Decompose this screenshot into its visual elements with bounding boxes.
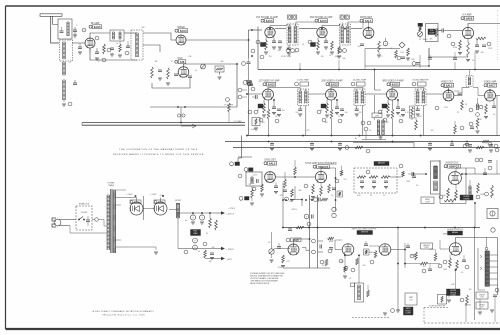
res RP1 — [209, 213, 212, 228]
wire tuner mid — [143, 45, 160, 52]
flyback top circle — [485, 247, 488, 251]
svg-text:6AU6: 6AU6 — [180, 29, 187, 33]
svg-text:CONT: CONT — [424, 247, 429, 249]
part blackbox stage2 — [311, 43, 316, 47]
ground C11 — [272, 47, 276, 49]
res RD2 — [323, 237, 334, 241]
svg-text:+ 270 V.: + 270 V. — [228, 208, 236, 210]
coil L5 — [63, 80, 66, 100]
wire horiz misc — [455, 270, 457, 289]
wire choke out — [178, 213, 216, 218]
wire rowA can out — [296, 22, 363, 29]
res R13 — [317, 38, 320, 50]
bus cluster 490 — [482, 140, 498, 152]
sync det label — [264, 160, 277, 166]
sync black label — [374, 162, 389, 166]
res RD10 — [434, 249, 437, 261]
circled d4 — [443, 260, 469, 269]
can1 sub label — [281, 49, 294, 58]
wire horiz grid — [440, 240, 449, 249]
tube V6 AF amp — [462, 27, 473, 38]
svg-text:6AX4GT: 6AX4GT — [378, 162, 386, 165]
svg-text:TRANS: TRANS — [108, 184, 115, 187]
cap CD1 — [277, 243, 281, 248]
svg-text:+135 V.: +135 V. — [252, 175, 258, 177]
part blackbox 2ND VIDEO I-F AMP — [321, 104, 326, 108]
wire rowD top1 — [282, 200, 284, 228]
horiz lin box — [476, 302, 488, 309]
mid col res — [226, 98, 231, 123]
vertical wire to heater bus — [236, 64, 238, 107]
cap C19 — [475, 40, 479, 47]
component value labels — [69, 25, 498, 294]
integ circled — [366, 170, 370, 174]
balun box — [58, 19, 72, 39]
mixer tube V1 — [85, 38, 95, 48]
wire out mid — [194, 244, 196, 246]
res R8 — [167, 68, 170, 79]
label horiz osc — [444, 163, 460, 169]
cap C15 — [360, 44, 364, 46]
FM trap box — [110, 30, 124, 41]
heater bus upper — [82, 122, 245, 124]
wire rowA 2 — [299, 28, 317, 30]
circled b12 — [322, 118, 326, 122]
fold dotted line — [497, 10, 499, 60]
trap coil box — [377, 120, 384, 135]
ground C60 — [191, 222, 204, 224]
cap C3 tuner — [126, 41, 130, 48]
label canB 4.5 MC TRAP — [295, 79, 310, 87]
svg-text:.05: .05 — [331, 195, 333, 197]
circled a3 — [295, 48, 299, 52]
label af amp — [461, 14, 474, 21]
svg-text:6AL5: 6AL5 — [269, 161, 276, 165]
svg-text:SOUND TAKEOFF: SOUND TAKEOFF — [413, 79, 430, 82]
electrolytic C16 — [383, 38, 388, 46]
label 1st sound if — [256, 16, 279, 23]
circled v2 — [479, 105, 483, 109]
res R11 — [265, 38, 268, 50]
bus hang 340 — [338, 142, 342, 151]
wire tuner to 1st vif — [249, 86, 263, 94]
label video det — [441, 82, 454, 88]
wire x474 down2 — [474, 228, 476, 321]
svg-text:10: 10 — [390, 48, 392, 50]
cap C14 — [324, 38, 328, 43]
wire video amp grid — [473, 88, 485, 96]
res RC13 — [476, 183, 480, 199]
res RD13 — [456, 260, 459, 270]
ground R16 — [406, 58, 410, 60]
svg-text:68: 68 — [320, 110, 322, 112]
wire 2ND VIDEO I-F AMP drop — [331, 119, 333, 136]
ground 3RD VIDEO I-F AMP b — [396, 113, 400, 115]
svg-text:VOL: VOL — [435, 35, 438, 37]
svg-text:.005: .005 — [277, 50, 280, 52]
notes text — [250, 272, 285, 285]
svg-text:RECEIVER MAKES IT POSSIBLE TO: RECEIVER MAKES IT POSSIBLE TO BRING YOU … — [113, 153, 204, 156]
terminal circles rowB — [247, 82, 255, 91]
circled d1 — [320, 260, 348, 270]
interlock box — [76, 204, 92, 231]
svg-text:5: 5 — [382, 56, 383, 58]
cap CP1 — [210, 253, 214, 255]
ground rd1 — [377, 52, 381, 57]
circled a2 — [260, 55, 264, 59]
wire rowA plate runs — [270, 24, 340, 27]
wire rowB left terms — [238, 88, 247, 99]
label 3RD VIDEO I-F AMP — [382, 80, 404, 87]
svg-text:6SN7GT: 6SN7GT — [361, 232, 369, 234]
res R44 — [454, 121, 457, 134]
wire 3RD VIDEO I-F AMP drop — [392, 119, 394, 136]
label 2ND VIDEO I-F AMP — [321, 80, 343, 87]
dashed bottom line2 — [352, 305, 448, 323]
cap C18 — [436, 29, 448, 33]
cap under can SOUND TAKEOFF — [416, 106, 420, 111]
integrator dashed box — [354, 168, 397, 193]
power transformer primary — [107, 195, 110, 250]
circled trap1 — [361, 121, 371, 131]
circled b13 — [338, 119, 342, 123]
cap C10 — [188, 76, 192, 78]
svg-text:L-74607: L-74607 — [126, 194, 132, 196]
-18V out label — [226, 259, 233, 261]
svg-text:B+: B+ — [355, 138, 357, 140]
wire rowD spine — [335, 211, 337, 228]
svg-text:100: 100 — [209, 261, 212, 263]
cap video amp — [492, 101, 496, 108]
cap under 3RD VIDEO I-F AMP — [396, 100, 400, 109]
svg-text:4.5 MC TRAP: 4.5 MC TRAP — [297, 79, 309, 82]
circled v3 — [460, 126, 464, 130]
mixer tube V2a — [176, 35, 186, 45]
svg-text:CONT: CONT — [406, 313, 412, 315]
svg-text:+140V: +140V — [251, 129, 257, 131]
heater circles — [177, 114, 185, 117]
diamond jack — [399, 42, 405, 48]
svg-text:CONT: CONT — [451, 295, 457, 297]
res RD1 — [281, 255, 285, 268]
ground can 4.5 MC TRAP — [298, 114, 302, 116]
wire rowA 3 — [351, 28, 362, 30]
circled a4 — [308, 40, 312, 44]
junction 2ND VIDEO I-F AMP — [331, 99, 338, 136]
wire af plate to right — [468, 24, 500, 28]
res RD5 — [374, 251, 377, 259]
wire rowC right — [462, 160, 500, 174]
wire can 4.5 MC TRAP out — [305, 106, 307, 136]
cap C33 — [470, 127, 474, 129]
circled c3 — [475, 158, 492, 170]
circled a7 — [451, 42, 455, 46]
res R16 — [407, 48, 410, 56]
svg-text:.047: .047 — [422, 266, 425, 268]
antenna — [40, 14, 62, 40]
svg-text:68: 68 — [257, 110, 259, 112]
on-off switch — [78, 212, 87, 220]
cap CD2 — [329, 248, 333, 250]
horiz drive blackbox — [460, 195, 473, 200]
T4 label — [340, 15, 349, 25]
flyback transformer — [485, 251, 489, 287]
rectifier tube V11 — [154, 202, 167, 215]
circled p1 — [184, 242, 207, 254]
wire x309 drop — [309, 195, 311, 268]
svg-text:THE COOPERATION OF THE MAN: THE COOPERATION OF THE MANUFACTURER OF T… — [119, 148, 197, 151]
cap C8 — [158, 70, 162, 72]
box res RC9 — [337, 191, 343, 197]
label canB SOUND TAKEOFF — [412, 79, 429, 87]
integ cap 2 — [372, 181, 376, 189]
wire 3RD VIDEO I-F AMP plate — [392, 88, 424, 90]
bus rowB lower — [225, 141, 500, 143]
wire sec bottom — [116, 246, 156, 248]
svg-text:120: 120 — [431, 130, 434, 132]
tube horiz output — [449, 243, 461, 255]
freq control box — [421, 197, 434, 204]
cap CD3 — [364, 241, 368, 246]
wire out +270 — [216, 212, 225, 215]
res R19 — [458, 40, 462, 55]
svg-text:6J6: 6J6 — [180, 60, 185, 64]
svg-text:44.25MC TRAP: 44.25MC TRAP — [353, 79, 367, 82]
+135V label — [330, 164, 337, 166]
vert label text — [352, 228, 378, 230]
wire x497 col — [490, 96, 497, 136]
wire can 44.25MC TRAP out — [361, 106, 363, 136]
tube 1ST VIDEO I-F AMP — [263, 89, 274, 100]
electrolytic C63 — [193, 245, 198, 250]
wire mixer cathode — [89, 48, 91, 52]
wire rowC top vertical — [241, 136, 243, 159]
heater circ — [0, 0, 1, 1]
rowA bus stub6 — [474, 52, 475, 70]
res under video amp — [484, 104, 488, 119]
svg-text:+135 V.: +135 V. — [330, 164, 337, 166]
part blackbox 1ST VIDEO I-F AMP — [258, 104, 263, 108]
sync coil box — [246, 172, 262, 186]
vert hold blackbox — [404, 307, 414, 315]
svg-text:- 18 V.: - 18 V. — [226, 259, 233, 261]
IF transformer T4 — [340, 24, 351, 45]
res under 2ND VIDEO I-F AMP b — [330, 100, 333, 119]
photofact text — [93, 310, 155, 316]
svg-text:.05: .05 — [289, 201, 291, 203]
svg-text:.05: .05 — [369, 130, 371, 132]
wire y135 drops — [256, 126, 380, 136]
IF can 44.25MC TRAP — [354, 89, 365, 106]
ground under trap — [110, 54, 114, 56]
tube 2ND VIDEO I-F AMP — [326, 89, 337, 100]
res R21 — [476, 37, 486, 40]
electrolytic C60 — [190, 213, 195, 220]
res R20 — [467, 39, 470, 57]
svg-text:.005: .005 — [357, 46, 360, 48]
circled a8 — [487, 42, 491, 46]
cap CC2 — [283, 190, 287, 192]
wire rowC horiz — [238, 157, 252, 164]
cap CC7 — [479, 158, 492, 175]
wire rowA 1 — [275, 28, 286, 30]
tube V5 ratio det — [363, 28, 374, 39]
wire sync to amp — [275, 176, 315, 178]
tube 3RD VIDEO I-F AMP — [387, 89, 398, 100]
wire rowC plus rail — [285, 186, 303, 211]
res RD7 — [356, 258, 359, 265]
svg-text:6SN7GT: 6SN7GT — [449, 164, 460, 168]
wire rowD horiz 227 — [283, 227, 480, 229]
res box R9 — [215, 66, 224, 72]
ground pot2 — [270, 254, 274, 262]
+270V out label — [226, 214, 234, 216]
label ratio det — [360, 16, 373, 23]
wire rd bottom — [365, 48, 400, 50]
IF transformer T3 — [287, 24, 298, 45]
wire ratio top — [368, 22, 370, 28]
res y147 — [355, 146, 363, 149]
wire canB2 to tube3 — [365, 93, 387, 95]
power transformer core — [111, 189, 112, 253]
ground trap — [379, 135, 383, 139]
circled v1 — [435, 106, 439, 110]
svg-text:6AC7: 6AC7 — [489, 83, 496, 87]
svg-text:6AG5: 6AG5 — [94, 25, 101, 29]
svg-text:3MEG: 3MEG — [430, 249, 435, 251]
filter choke — [175, 200, 181, 218]
ground ant — [73, 35, 77, 37]
wire vert right — [405, 243, 440, 268]
wire mixer plate — [90, 33, 110, 38]
vert label — [357, 231, 373, 235]
ground R14 — [330, 52, 334, 54]
res under 1ST VIDEO I-F AMP b — [267, 100, 270, 119]
svg-text:L2: L2 — [69, 62, 71, 64]
terminal d — [383, 309, 394, 316]
res RD11 — [420, 262, 428, 265]
svg-text:VERT OSC VERT OUTPUT: VERT OSC VERT OUTPUT — [352, 228, 378, 230]
res RD6 — [344, 255, 347, 272]
cap under 1ST VIDEO I-F AMP 2 — [277, 109, 281, 111]
cluster 399 — [397, 56, 405, 60]
wire rowC drops — [270, 182, 283, 200]
ground hd — [447, 296, 451, 303]
svg-text:TO TUNER: TO TUNER — [234, 121, 243, 123]
ground 1ST VIDEO I-F AMP b — [272, 113, 276, 115]
IF can SOUND TAKEOFF — [415, 89, 426, 106]
volume pot — [418, 23, 423, 40]
svg-text:10: 10 — [195, 70, 197, 72]
cap CD0 — [288, 228, 292, 231]
cap CD4 — [406, 243, 410, 248]
tube V3 1st sound IF — [265, 27, 275, 37]
rect label 1 — [126, 194, 132, 196]
svg-text:.05: .05 — [370, 195, 372, 197]
res RC4 — [291, 189, 294, 197]
ground 3RD VIDEO I-F AMP c — [401, 115, 405, 117]
ground osc2 — [166, 83, 170, 85]
res R14 — [331, 41, 334, 50]
wire antenna to balun — [51, 40, 59, 43]
ground R11 — [264, 52, 268, 54]
svg-text:.05: .05 — [493, 114, 495, 116]
wire rowD bus — [283, 267, 330, 269]
diamond jack 2 — [475, 112, 480, 117]
osc coil right — [469, 180, 471, 199]
integ cap 1 — [360, 181, 364, 189]
width coil box — [476, 292, 488, 299]
circled a6 — [447, 34, 451, 38]
tube vert output — [379, 244, 391, 256]
label sync amp — [305, 162, 337, 169]
heater winding taps — [116, 190, 126, 240]
resistor R7 — [151, 67, 154, 78]
wire vol to af — [438, 30, 441, 32]
horiz osc right rail — [465, 168, 467, 204]
svg-text:20: 20 — [198, 251, 200, 253]
circled b02 — [259, 118, 263, 122]
ground osc1 — [158, 78, 162, 80]
svg-text:6AG5: 6AG5 — [331, 82, 338, 86]
wire y144 seg — [353, 143, 414, 148]
circled d3 — [410, 254, 442, 273]
dashed bottom line — [424, 322, 500, 324]
circled v4 — [469, 108, 473, 126]
res RP2 — [215, 220, 218, 230]
cap CC1 — [274, 182, 278, 187]
wire choke — [169, 206, 178, 218]
svg-text:COIL: COIL — [480, 297, 484, 299]
ground CC1 — [274, 192, 278, 194]
rect type box 1 — [130, 200, 141, 204]
rowA bus stub3 — [364, 49, 366, 70]
cooperation text — [113, 148, 204, 156]
cap line filter — [86, 216, 90, 226]
res RC14 — [485, 185, 494, 198]
wire vt drop — [358, 255, 360, 283]
ground P — [154, 247, 158, 254]
+270V label — [228, 208, 236, 210]
wire osc top — [184, 64, 238, 67]
res R2 tuner — [118, 41, 122, 57]
ground 1ST VIDEO I-F AMP a — [262, 115, 266, 117]
tube V2 label — [175, 58, 186, 64]
cap C5 — [95, 48, 99, 54]
cap under can 4.5 MC TRAP — [298, 106, 302, 111]
svg-text:2: 2 — [77, 25, 78, 27]
svg-text:+ 135 V.: + 135 V. — [226, 249, 234, 251]
wire horiz osc out — [456, 168, 475, 174]
cap C9 — [174, 74, 178, 76]
wire 1ST VIDEO I-F AMP plate — [268, 88, 300, 90]
wire to audio grid — [274, 248, 290, 250]
circled t2 — [95, 36, 129, 55]
svg-text:150: 150 — [282, 110, 285, 112]
can2 sub label — [335, 49, 346, 58]
svg-text:.05: .05 — [461, 272, 463, 274]
res RC2 — [284, 172, 287, 188]
svg-text:6AU6: 6AU6 — [266, 19, 273, 23]
junction 3RD VIDEO I-F AMP — [392, 99, 399, 136]
svg-text:6AG5: 6AG5 — [392, 82, 399, 86]
svg-text:100: 100 — [155, 61, 158, 63]
svg-text:.05: .05 — [496, 292, 498, 294]
tube video det — [443, 90, 454, 101]
res R42 — [415, 120, 418, 130]
ground af — [466, 51, 479, 62]
bus hang 430 — [428, 142, 432, 151]
